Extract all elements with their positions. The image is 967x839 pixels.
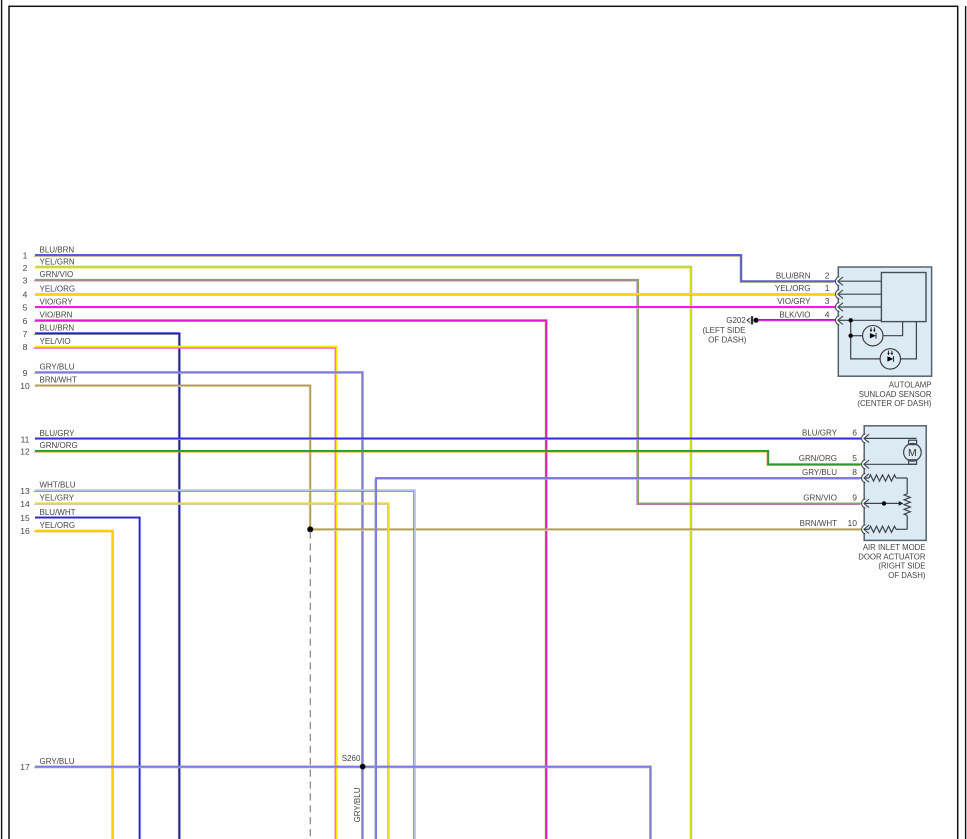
sensor caption <box>857 381 931 408</box>
splice S260 junction dot <box>342 754 366 770</box>
svg-text:8: 8 <box>852 467 857 477</box>
svg-text:BLU/BRN: BLU/BRN <box>40 245 75 254</box>
svg-text:YEL/VIO: YEL/VIO <box>40 337 71 346</box>
wire 7 BLU/BRN <box>23 324 180 839</box>
autolamp sunload sensor box body <box>838 267 931 376</box>
svg-text:12: 12 <box>20 447 30 457</box>
svg-text:1: 1 <box>825 283 830 293</box>
svg-text:VIO/GRY: VIO/GRY <box>40 297 74 306</box>
sensor pin 3 value label VIO/GRY <box>777 296 829 306</box>
wire 17 GRY/BLU <box>20 757 650 839</box>
border frame outer left line <box>1 0 3 839</box>
svg-text:GRN/ORG: GRN/ORG <box>40 441 78 450</box>
actuator pin 8 value label GRY/BLU <box>802 467 857 477</box>
svg-text:YEL/ORG: YEL/ORG <box>40 284 76 293</box>
actuator pin 10 terminal arrow <box>862 525 870 534</box>
junction dot on BRN/WHT wire <box>307 526 313 532</box>
svg-text:6: 6 <box>23 316 28 326</box>
wire sensor pin 4 to IC block <box>838 319 882 321</box>
border frame outer right line <box>965 6 967 839</box>
photodiode D1 <box>863 326 883 346</box>
dashed unconnected run below BRN/WHT junction <box>309 532 311 839</box>
ground G202 <box>703 316 759 344</box>
wire 5 VIO/GRY <box>23 297 835 312</box>
svg-text:GRN/ORG: GRN/ORG <box>799 454 837 463</box>
wire BLK/VIO from G202 to sensor pin 4 <box>758 319 836 322</box>
wire GRY/BLU riser to actuator pin 8 <box>375 478 861 839</box>
svg-text:5: 5 <box>852 453 857 463</box>
sensor pin 4 terminal arrow <box>835 316 843 325</box>
wire 3 GRN/VIO <box>23 270 861 504</box>
actuator pin 5 value label GRN/ORG <box>799 453 858 463</box>
wire 10 BRN/WHT <box>20 376 861 531</box>
svg-text:WHT/BLU: WHT/BLU <box>40 481 76 490</box>
svg-text:14: 14 <box>20 499 30 509</box>
svg-text:DOOR ACTUATOR: DOOR ACTUATOR <box>858 552 926 561</box>
svg-text:4: 4 <box>825 309 830 319</box>
sensor internal junction node A <box>849 318 853 322</box>
sensor pin 1 terminal arrow <box>835 290 843 299</box>
wire 1 BLU/BRN <box>23 245 835 282</box>
resistor R1 (pin 8) <box>864 475 907 481</box>
svg-text:M: M <box>908 447 917 459</box>
svg-text:17: 17 <box>20 762 30 772</box>
svg-text:OF DASH): OF DASH) <box>708 335 747 344</box>
wire 16 YEL/ORG <box>20 521 113 839</box>
svg-text:YEL/GRY: YEL/GRY <box>40 493 75 502</box>
svg-text:BLU/BRN: BLU/BRN <box>776 271 811 280</box>
svg-text:G202: G202 <box>726 316 746 325</box>
svg-text:10: 10 <box>20 381 30 391</box>
actuator pin 6 terminal arrow <box>862 434 870 443</box>
sensor pin 1 value label YEL/ORG <box>775 283 830 293</box>
sensor pin 4 value label BLK/VIO <box>779 309 829 319</box>
svg-text:7: 7 <box>23 329 28 339</box>
svg-text:BRN/WHT: BRN/WHT <box>800 519 837 528</box>
wire photodiode D1 to IC block <box>883 322 903 336</box>
sensor pin 2 value label BLU/BRN <box>776 270 830 280</box>
svg-text:GRY/BLU: GRY/BLU <box>40 757 75 766</box>
actuator pin 8 terminal arrow <box>862 473 870 482</box>
actuator pin 5 terminal arrow <box>862 460 870 469</box>
svg-text:2: 2 <box>825 270 830 280</box>
potentiometer wiper arrow <box>864 501 904 506</box>
svg-text:BRN/WHT: BRN/WHT <box>40 376 77 385</box>
wire actuator pin 5 to motor <box>864 463 917 465</box>
potentiometer R3 <box>904 478 910 529</box>
actuator pin 9 terminal arrow <box>862 499 870 508</box>
svg-text:GRN/VIO: GRN/VIO <box>40 270 74 279</box>
wire 6 VIO/BRN <box>23 311 547 839</box>
svg-text:11: 11 <box>21 434 30 444</box>
actuator pin 6 value label BLU/GRY <box>802 427 857 437</box>
wire 4 YEL/ORG <box>23 284 835 299</box>
svg-text:(CENTER OF DASH): (CENTER OF DASH) <box>857 399 931 408</box>
wire sensor pin 2 to IC block <box>838 280 882 282</box>
wire 2 YEL/GRN <box>23 258 692 839</box>
wire 13 WHT/BLU <box>20 481 415 839</box>
svg-text:BLU/GRY: BLU/GRY <box>802 428 838 437</box>
svg-text:15: 15 <box>20 513 30 523</box>
svg-text:BLU/WHT: BLU/WHT <box>40 508 76 517</box>
wire 14 YEL/GRY <box>20 493 388 839</box>
motor M1 <box>904 440 922 464</box>
svg-text:3: 3 <box>825 296 830 306</box>
photodiode D2 <box>880 349 900 369</box>
svg-text:GRY/BLU: GRY/BLU <box>40 363 75 372</box>
svg-text:AUTOLAMP: AUTOLAMP <box>889 381 932 390</box>
air inlet mode door actuator box body <box>864 426 926 541</box>
svg-text:1: 1 <box>23 251 28 261</box>
actuator pin 9 value label GRN/VIO <box>803 492 857 502</box>
svg-text:8: 8 <box>23 342 28 352</box>
svg-text:GRY/BLU: GRY/BLU <box>353 787 362 822</box>
svg-text:5: 5 <box>23 303 28 313</box>
wire sensor pin 1 to IC block <box>838 293 882 295</box>
svg-text:S260: S260 <box>342 754 361 763</box>
svg-text:VIO/BRN: VIO/BRN <box>40 311 73 320</box>
actuator pin 10 value label BRN/WHT <box>800 518 858 528</box>
svg-text:OF DASH): OF DASH) <box>888 571 926 580</box>
svg-text:GRN/VIO: GRN/VIO <box>803 493 837 502</box>
svg-text:BLU/GRY: BLU/GRY <box>40 429 76 438</box>
wire 15 BLU/WHT <box>20 508 140 839</box>
svg-text:6: 6 <box>852 427 857 437</box>
actuator caption <box>858 543 926 580</box>
wire 12 GRN/ORG <box>20 441 861 465</box>
wire 9 GRY/BLU <box>23 363 363 839</box>
wire photodiode D2 to IC block <box>901 322 917 359</box>
wire sensor pin 3 to IC block <box>838 306 882 308</box>
svg-text:GRY/BLU: GRY/BLU <box>802 468 837 477</box>
svg-text:2: 2 <box>23 263 28 273</box>
svg-text:AIR INLET MODE: AIR INLET MODE <box>863 543 926 552</box>
svg-text:13: 13 <box>20 486 30 496</box>
svg-text:9: 9 <box>23 368 28 378</box>
sensor internal junction node B <box>849 334 853 338</box>
resistor R2 (pin 10) <box>864 526 907 532</box>
svg-text:9: 9 <box>852 492 857 502</box>
svg-text:16: 16 <box>20 526 30 536</box>
svg-text:YEL/ORG: YEL/ORG <box>40 521 76 530</box>
wire 11 BLU/GRY <box>21 429 861 444</box>
svg-text:10: 10 <box>848 518 858 528</box>
wire sensor node A down to photodiode D2 <box>851 320 880 359</box>
svg-text:BLK/VIO: BLK/VIO <box>779 310 810 319</box>
svg-text:3: 3 <box>23 275 28 285</box>
wire sensor node B to photodiode D1 <box>851 335 863 337</box>
svg-text:SUNLOAD SENSOR: SUNLOAD SENSOR <box>859 390 932 399</box>
sensor pin 3 terminal arrow <box>835 302 843 311</box>
svg-text:4: 4 <box>23 290 28 300</box>
wire 8 YEL/VIO <box>23 337 337 839</box>
sensor pin 2 terminal arrow <box>835 277 843 286</box>
svg-text:BLU/BRN: BLU/BRN <box>40 324 75 333</box>
svg-text:(RIGHT SIDE: (RIGHT SIDE <box>878 562 925 571</box>
svg-text:YEL/ORG: YEL/ORG <box>775 284 811 293</box>
svg-text:VIO/GRY: VIO/GRY <box>777 297 811 306</box>
svg-text:(LEFT SIDE: (LEFT SIDE <box>703 326 746 335</box>
wire actuator pin 6 to motor <box>864 437 917 439</box>
svg-text:YEL/GRN: YEL/GRN <box>40 258 75 267</box>
